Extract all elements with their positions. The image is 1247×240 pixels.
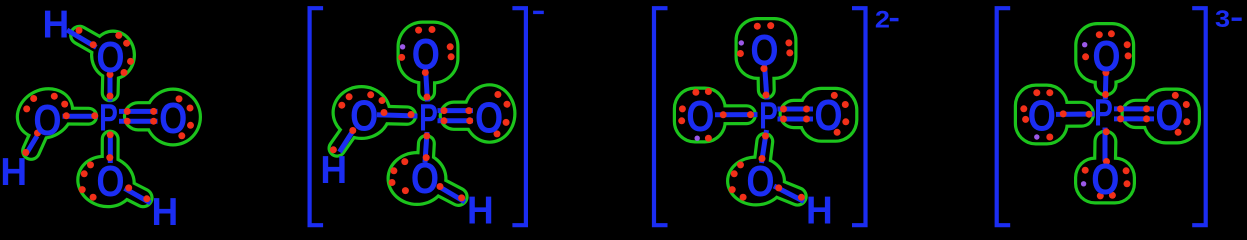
transferred electron dot on left O (S3) bbox=[695, 136, 700, 141]
charge label minus (S2) bbox=[533, 11, 544, 14]
bond O-P (left, S1) bbox=[63, 114, 99, 119]
lone pair dots on left O (S1) bbox=[23, 93, 68, 113]
octet loop around bottom O-H oxygen (S1) bbox=[70, 139, 143, 215]
octet loop around bottom O-H oxygen (S3) bbox=[726, 141, 798, 206]
lone pair dots on top O (S1) bbox=[115, 32, 134, 76]
svg-text:P: P bbox=[759, 95, 778, 137]
bond O-P (left, S2) bbox=[377, 115, 418, 116]
double bond electron dots (S4) bbox=[1117, 105, 1150, 122]
lone pair dots on right O (S3) bbox=[831, 92, 850, 136]
lone pair dots on right O (S1) bbox=[176, 95, 195, 139]
octet loop around double-bonded right oxygen (S3) bbox=[794, 87, 859, 143]
svg-text:O: O bbox=[411, 155, 439, 203]
lone pair dots on right O (S2) bbox=[494, 91, 511, 137]
octet loop around double-bonded right oxygen (S4) bbox=[1136, 88, 1201, 145]
bond P-O (bottom, S2) bbox=[425, 132, 427, 163]
right bracket (S3) bbox=[852, 8, 866, 225]
bonding electron dots O-P left (S1) bbox=[63, 112, 98, 119]
double bond P=O lower line (S4) bbox=[1114, 116, 1154, 121]
double bond P=O lower line (S2) bbox=[438, 118, 474, 123]
svg-text:O: O bbox=[1092, 33, 1120, 81]
svg-text:2: 2 bbox=[875, 7, 890, 33]
bond P-O (bottom, S4) bbox=[1103, 128, 1108, 162]
svg-text:O: O bbox=[475, 94, 503, 142]
lone pair dots on right O (S4) bbox=[1172, 92, 1191, 136]
svg-text:O: O bbox=[96, 34, 124, 82]
octet loop around deprotonated top oxygen (S2) bbox=[397, 21, 460, 93]
lone pair dots on bottom O (S3) bbox=[729, 161, 747, 200]
bond O-P (left, S3) bbox=[715, 112, 758, 117]
svg-text:O: O bbox=[814, 92, 842, 140]
bond O-P (left, S4) bbox=[1056, 112, 1095, 117]
transferred electron dot on top O (S2) bbox=[400, 44, 405, 49]
lone pair dots on top O (S4) bbox=[1082, 30, 1132, 60]
bonding electron dots P-O bottom (S2) bbox=[423, 133, 431, 162]
bonding electron dots O-P top (S2) bbox=[422, 69, 431, 101]
double bond P=O upper line (S1) bbox=[119, 109, 158, 114]
transferred electron dot on top O (S4) bbox=[1082, 42, 1087, 47]
svg-text:H: H bbox=[152, 190, 179, 231]
lone pair dots on top O (S2) bbox=[398, 26, 454, 61]
svg-text:O: O bbox=[1155, 92, 1183, 140]
bonding electron dots H-O left (S1) bbox=[22, 130, 41, 157]
bond H-O (top-left, S1) bbox=[67, 30, 96, 47]
lone pair dots on bottom O (S1) bbox=[79, 161, 97, 200]
right bracket (S4) bbox=[1192, 8, 1206, 225]
svg-text:H: H bbox=[320, 148, 347, 191]
svg-text:O: O bbox=[412, 31, 440, 79]
lone pair dots on left O (S3) bbox=[678, 88, 712, 142]
lone pair dots on bottom O (S4) bbox=[1082, 167, 1131, 200]
charge minus sign (S3) bbox=[890, 18, 899, 21]
double bond P=O lower line (S3) bbox=[778, 117, 814, 122]
octet loop around double-bonded right oxygen (S2) bbox=[454, 83, 517, 144]
bond O-P (top, S2) bbox=[426, 69, 428, 102]
bonding electron dots H-O top (S1) bbox=[76, 27, 97, 48]
octet loop around left O-H oxygen (S1) bbox=[7, 78, 89, 151]
bond P-O (bottom, S1) bbox=[108, 132, 113, 163]
svg-text:H: H bbox=[43, 3, 70, 46]
bonding electron dots O-P left (S3) bbox=[720, 111, 754, 118]
bonding electron dots O-P left (S2) bbox=[381, 109, 415, 118]
bonding electron dots O-P top (S1) bbox=[107, 71, 114, 100]
charge minus sign (S4) bbox=[1232, 18, 1242, 21]
lone pair dots on left O (S4) bbox=[1020, 89, 1053, 140]
octet loop around bottom O-H oxygen (S2) bbox=[387, 144, 459, 207]
bonding electron dots O-H bottom (S2) bbox=[437, 183, 466, 201]
left bracket (S3) bbox=[654, 8, 668, 225]
transferred electron dot on left O (S4) bbox=[1034, 134, 1039, 139]
bonding electron dots P-O bottom (S1) bbox=[106, 131, 113, 161]
svg-text:O: O bbox=[746, 158, 774, 206]
bond O-H (bottom, S3) bbox=[774, 186, 804, 202]
bond O-P (top, S1) bbox=[108, 72, 113, 102]
svg-text:P: P bbox=[419, 97, 438, 139]
bond H-O (left, S2) bbox=[340, 132, 353, 153]
double bond P=O lower line (S1) bbox=[119, 119, 158, 124]
transferred electron dot on bottom O (S4) bbox=[1081, 181, 1086, 186]
octet loop around deprotonated top oxygen (S4) bbox=[1074, 22, 1135, 85]
svg-text:P: P bbox=[99, 97, 118, 139]
svg-text:O: O bbox=[350, 93, 378, 141]
left bracket (S2) bbox=[310, 8, 324, 225]
svg-text:O: O bbox=[159, 95, 187, 143]
transferred electron dot on top O (S3) bbox=[739, 40, 744, 45]
svg-text:H: H bbox=[806, 189, 833, 231]
octet loop around double-bonded right oxygen (S1) bbox=[138, 88, 202, 147]
svg-text:P: P bbox=[1094, 92, 1113, 134]
octet loop around deprotonated bottom oxygen (S4) bbox=[1074, 142, 1136, 205]
svg-text:O: O bbox=[1028, 92, 1056, 140]
double bond P=O upper line (S4) bbox=[1114, 106, 1154, 111]
bonding electron dots O-H bottom (S1) bbox=[125, 184, 150, 202]
bonding electron dots H-O left (S2) bbox=[330, 127, 356, 153]
bonding electron dots P-O bottom (S4) bbox=[1103, 128, 1110, 165]
bond H-O (left, S1) bbox=[26, 136, 38, 155]
right bracket (S2) bbox=[512, 8, 526, 225]
svg-text:H: H bbox=[0, 150, 27, 193]
bond O-P (top, S3) bbox=[765, 65, 768, 100]
octet loop around left O-H oxygen (S2) bbox=[332, 85, 408, 148]
double bond P=O upper line (S3) bbox=[778, 107, 814, 112]
double bond electron dots (S1) bbox=[124, 108, 157, 125]
svg-text:H: H bbox=[467, 189, 494, 231]
lone pair dots on top O (S3) bbox=[737, 22, 793, 57]
double bond electron dots (S2) bbox=[441, 107, 474, 124]
bond O-H (bottom, S1) bbox=[125, 188, 151, 203]
bond P-O (bottom, S3) bbox=[762, 130, 767, 163]
bonding electron dots O-P top (S3) bbox=[761, 65, 770, 98]
octet loop around top O-H oxygen (S1) bbox=[80, 30, 136, 93]
svg-text:3: 3 bbox=[1215, 7, 1230, 33]
octet loop around deprotonated left oxygen (S4) bbox=[1014, 84, 1082, 146]
svg-text:O: O bbox=[750, 27, 778, 75]
octet loop around deprotonated top oxygen (S3) bbox=[735, 17, 798, 90]
bond O-P (top, S4) bbox=[1103, 71, 1109, 100]
double bond P=O upper line (S2) bbox=[438, 108, 474, 113]
bonding electron dots P-O bottom (S3) bbox=[759, 133, 770, 163]
svg-text:O: O bbox=[33, 97, 61, 145]
octet loop around deprotonated left oxygen (S3) bbox=[673, 87, 747, 144]
bonding electron dots O-P top (S4) bbox=[1102, 69, 1109, 98]
bond O-H (bottom, S2) bbox=[438, 186, 465, 202]
double bond electron dots (S3) bbox=[780, 106, 810, 123]
svg-text:O: O bbox=[1091, 156, 1119, 204]
left bracket (S4) bbox=[997, 8, 1011, 225]
bonding electron dots O-P left (S4) bbox=[1060, 110, 1093, 117]
lone pair dots on left O (S2) bbox=[338, 91, 385, 108]
svg-text:O: O bbox=[96, 158, 124, 206]
svg-text:O: O bbox=[686, 93, 714, 141]
lone pair dots on bottom O (S2) bbox=[389, 158, 409, 194]
bonding electron dots O-H bottom (S3) bbox=[775, 184, 805, 200]
